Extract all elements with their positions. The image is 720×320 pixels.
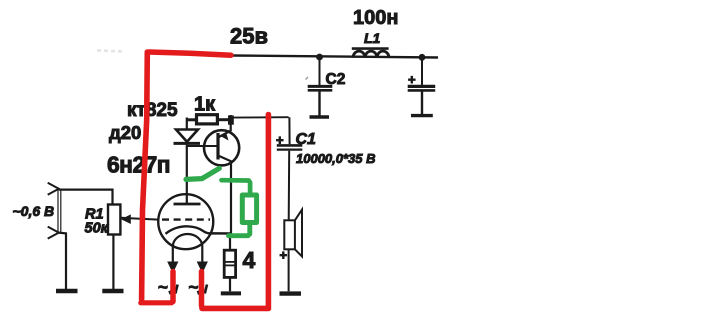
ground C3 [411,114,433,117]
resistor R2 1к [187,115,229,124]
input jack bottom chevron [48,227,59,239]
svg-text:+: + [276,133,284,148]
capacitor C1 [277,145,303,220]
wire input top to pot [59,190,113,205]
tube grid (dashed) [162,218,210,220]
svg-text:100н: 100н [353,7,398,29]
svg-text:25в: 25в [230,24,268,49]
resistor R3 body [224,234,236,292]
capacitor C2 [308,57,333,116]
svg-text:C1: C1 [296,131,317,148]
wire collector down [230,161,232,234]
remnant mark right [198,291,199,295]
ground speaker [280,291,302,295]
tube V1 envelope [158,194,213,249]
diode D1 [174,130,201,144]
potentiometer wiper arrow [121,214,131,224]
green resistor annotation [222,180,257,236]
wire emitter rail to C1 [231,116,289,118]
tube cathode arc [166,226,232,234]
red marker bottom-left foot [141,300,172,305]
svg-text:~: ~ [189,278,199,297]
svg-text:4: 4 [243,247,256,273]
wire input bottom to ground [59,233,66,290]
svg-text:1к: 1к [194,94,216,116]
svg-text:6н27п: 6н27п [107,152,170,178]
ground R1 [102,289,123,293]
svg-text:L1: L1 [364,30,381,46]
svg-text:~: ~ [158,278,168,297]
input jack top chevron [48,183,59,195]
tube anode plate [174,203,201,206]
red marker top horizontal [149,52,231,55]
svg-text:C2: C2 [326,71,346,88]
filament arrow left [167,262,178,274]
node junction C (resistor/emitter) [228,115,234,124]
wire base [187,143,218,146]
red marker left vertical [142,52,148,300]
tick left [175,285,177,294]
inductor L1 [352,49,389,58]
potentiometer R1 body [108,205,120,235]
svg-text:10000,0*35 В: 10000,0*35 В [296,151,376,166]
svg-text:~0,6 В: ~0,6 В [13,203,55,219]
wire anode vertical [186,146,188,204]
wire 25v supply rail [231,56,438,58]
ground R3 [221,291,241,295]
svg-text:+: + [280,248,288,263]
ground input [56,289,78,293]
ground C2 [310,115,330,118]
speck artifact [306,77,309,80]
wire grid to pot wiper [121,218,159,220]
faint erased smudge [97,51,124,52]
remnant mark left [169,291,170,294]
red marker stub filament left [170,272,176,302]
green switch annotation [186,168,219,179]
red marker bottom horizontal [202,306,269,312]
capacitor C3 (output electrolytic) [408,57,436,114]
svg-text:50к: 50к [85,221,109,237]
svg-text:кт825: кт825 [127,100,178,121]
wire R1 bottom [112,235,114,290]
transistor Q1 кт825 [204,130,239,165]
red marker right vertical [266,115,272,308]
red marker stub filament right [199,272,205,307]
wire emitter up to node C [230,115,232,131]
svg-text:д20: д20 [109,122,141,143]
node junction B (rail / output cap) [419,54,426,61]
node junction A (rail / C2) [316,54,323,61]
speaker BA1 [284,210,302,292]
filament arrow right [197,262,208,274]
tick right [205,285,207,294]
wire diode top [186,118,188,130]
svg-text:+: + [408,72,416,87]
tube filament arch [173,234,203,262]
wire rail to C1 down [288,117,290,144]
shield double line [57,190,59,234]
